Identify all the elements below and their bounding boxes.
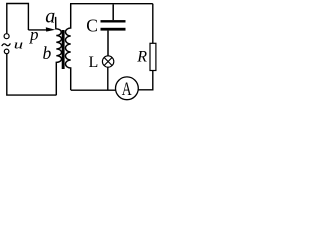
top wire of secondary loop (70, 3, 153, 5)
source lower terminal (4, 49, 9, 54)
svg-text:A: A (122, 78, 132, 100)
svg-text:a: a (45, 6, 55, 28)
capacitor top lead (112, 4, 114, 20)
source upper terminal (4, 34, 9, 39)
lamp L circle (102, 56, 113, 67)
transformer primary winding (stem + 5 loops) (56, 17, 62, 95)
resistor R box (150, 43, 156, 70)
svg-text:u: u (14, 37, 23, 51)
svg-text:L: L (89, 54, 99, 71)
transformer secondary winding (left edge of right loop, 5 loops) (65, 4, 70, 90)
svg-text:p: p (29, 25, 39, 44)
right edge wire down to resistor (152, 4, 154, 43)
lamp bottom lead to bottom wire junction (107, 67, 109, 90)
ammeter circle (116, 77, 139, 100)
capacitor bottom lead (107, 31, 109, 56)
wire arrow shaft (tap p) (28, 29, 48, 31)
wire resistor bottom to ammeter right (139, 71, 153, 90)
wire top-left from source upper terminal to tap arrow (7, 4, 29, 34)
capacitor C top plate (101, 20, 126, 22)
wire from lower terminal to primary bottom (7, 54, 57, 96)
svg-text:R: R (136, 49, 147, 66)
arrowhead of tap p (46, 27, 56, 31)
tilde of AC source (2, 43, 11, 46)
capacitor C bottom plate (101, 28, 126, 31)
svg-text:b: b (43, 43, 52, 63)
bottom wire of secondary loop to ammeter (71, 89, 116, 91)
svg-text:C: C (86, 16, 98, 36)
lamp cross (104, 57, 112, 65)
transformer core (62, 30, 65, 69)
